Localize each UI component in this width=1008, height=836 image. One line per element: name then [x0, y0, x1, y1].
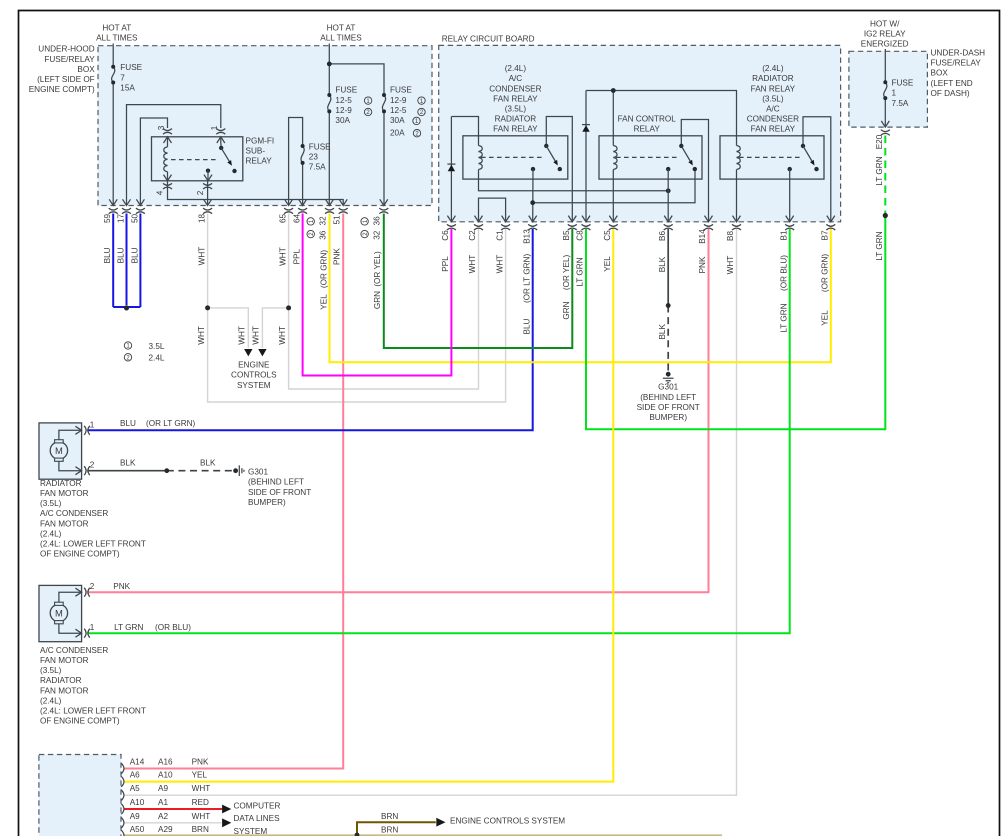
- wire BLU pins 59/17/50 bus: [112, 214, 114, 308]
- diode D2 to C8: [585, 91, 587, 222]
- svg-text:ENGINE CONTROLS SYSTEM: ENGINE CONTROLS SYSTEM: [450, 817, 565, 826]
- svg-text:PNK: PNK: [113, 582, 130, 591]
- pin A6/A10 YEL: [121, 776, 124, 786]
- run C8 feed to coils K2/K3: [586, 91, 737, 136]
- svg-text:WHT: WHT: [192, 784, 211, 793]
- relay circuit board: [439, 45, 841, 221]
- svg-text:E20: E20: [875, 134, 884, 149]
- svg-text:B7: B7: [821, 230, 830, 240]
- svg-text:B5: B5: [562, 230, 571, 240]
- svg-text:30A: 30A: [335, 116, 350, 125]
- svg-text:(2.4L): (2.4L): [40, 696, 62, 705]
- svg-text:FUSE: FUSE: [309, 143, 331, 152]
- svg-text:64: 64: [292, 214, 301, 224]
- svg-text:ENERGIZED: ENERGIZED: [861, 40, 909, 49]
- svg-text:2: 2: [196, 190, 205, 195]
- svg-text:A1: A1: [158, 798, 168, 807]
- run coil K1 to B6 wire: [479, 179, 669, 191]
- svg-text:A6: A6: [130, 771, 140, 780]
- svg-text:UNDER-HOOD: UNDER-HOOD: [38, 45, 94, 54]
- pin 32/36 YEL label: [307, 218, 314, 225]
- wire WHT branch to engine controls system (right): [262, 308, 288, 348]
- wire fuse 23 loop pins 65/64: [289, 118, 303, 206]
- svg-text:FAN MOTOR: FAN MOTOR: [40, 489, 89, 498]
- svg-text:M: M: [55, 445, 63, 456]
- svg-text:B14: B14: [698, 229, 707, 244]
- svg-text:(OR GRN): (OR GRN): [319, 250, 328, 288]
- wire GRN under-hood to B5: [384, 214, 573, 349]
- svg-text:YEL: YEL: [821, 310, 830, 326]
- svg-text:15A: 15A: [120, 84, 135, 93]
- svg-text:RADIATOR: RADIATOR: [495, 115, 537, 124]
- svg-text:IG2 RELAY: IG2 RELAY: [864, 30, 906, 39]
- svg-text:BLK: BLK: [200, 459, 216, 468]
- svg-text:BLK: BLK: [658, 256, 667, 272]
- svg-text:BUMPER): BUMPER): [248, 498, 286, 507]
- svg-text:12-9: 12-9: [335, 106, 352, 115]
- svg-text:WHT: WHT: [197, 326, 206, 345]
- svg-text:ENGINE: ENGINE: [238, 361, 270, 370]
- svg-text:RELAY CIRCUIT BOARD: RELAY CIRCUIT BOARD: [442, 34, 535, 43]
- svg-text:32: 32: [372, 230, 381, 240]
- svg-text:RADIATOR: RADIATOR: [40, 479, 82, 488]
- svg-text:12-9: 12-9: [390, 96, 407, 105]
- svg-text:LT GRN: LT GRN: [875, 231, 884, 260]
- svg-text:ALL TIMES: ALL TIMES: [320, 34, 362, 43]
- wire BLU B13 to motor1 pin 1: [87, 229, 533, 430]
- fuse 12-5/12-9 30A: [328, 95, 331, 111]
- svg-text:BRN: BRN: [381, 812, 398, 821]
- svg-text:BLU: BLU: [130, 247, 139, 263]
- pin A9/A2 WHT: [121, 818, 124, 828]
- svg-text:FAN CONTROL: FAN CONTROL: [618, 115, 677, 124]
- relay K2 switch: [681, 120, 708, 222]
- svg-text:RELAY: RELAY: [246, 157, 273, 166]
- relay K3 common to B1: [788, 167, 792, 171]
- pin 36/32 GRN label: [361, 218, 368, 225]
- svg-text:51: 51: [333, 215, 342, 225]
- under-hood fuse/relay box: [98, 46, 432, 206]
- wire BRN branch to engine controls system: [357, 822, 436, 835]
- svg-text:4: 4: [156, 190, 165, 195]
- relay K2 coil to C5: [612, 179, 614, 222]
- ground G301 (behind left side of front bumper): [233, 468, 238, 473]
- relay K3 (2.4L radiator fan relay / 3.5L A/C condenser fan relay): [720, 136, 824, 179]
- svg-text:BOX: BOX: [931, 69, 949, 78]
- wire pin 50 to PGM-FI relay pin 3: [140, 118, 167, 206]
- svg-text:C1: C1: [495, 230, 504, 241]
- svg-text:LT GRN: LT GRN: [779, 303, 788, 332]
- svg-text:FAN RELAY: FAN RELAY: [751, 125, 796, 134]
- svg-text:(3.5L): (3.5L): [505, 105, 527, 114]
- svg-text:(OR YEL): (OR YEL): [562, 254, 571, 290]
- relay K3 switch: [803, 117, 831, 222]
- wire YEL under-hood to B7: [330, 214, 831, 363]
- svg-text:B1: B1: [779, 230, 788, 240]
- svg-text:3: 3: [157, 125, 166, 130]
- svg-text:HOT AT: HOT AT: [327, 24, 356, 33]
- wire LT GRN E20 dashed: [884, 136, 886, 215]
- svg-text:SYSTEM: SYSTEM: [237, 381, 271, 390]
- relay K3 coil to B8: [736, 179, 738, 222]
- svg-text:CONTROLS: CONTROLS: [231, 371, 277, 380]
- svg-text:UNDER-DASH: UNDER-DASH: [931, 49, 986, 58]
- wire LT GRN B1 to motor2 pin 1: [87, 229, 790, 633]
- svg-text:C8: C8: [576, 230, 585, 241]
- svg-text:A/C CONDENSER: A/C CONDENSER: [40, 509, 108, 518]
- svg-text:(2.4L: LOWER LEFT FRONT: (2.4L: LOWER LEFT FRONT: [40, 707, 146, 716]
- svg-text:(OR LT GRN): (OR LT GRN): [522, 253, 531, 303]
- svg-text:HOT W/: HOT W/: [870, 20, 900, 29]
- svg-text:WHT: WHT: [726, 256, 735, 275]
- svg-text:(2.4L): (2.4L): [505, 64, 527, 73]
- svg-text:DATA LINES: DATA LINES: [234, 814, 281, 823]
- pin A50/A29 BRN: [121, 830, 124, 836]
- svg-text:(BEHIND LEFT: (BEHIND LEFT: [640, 393, 696, 402]
- svg-text:A/C: A/C: [509, 74, 523, 83]
- wire PNK B14 to motor2 pin 2: [87, 229, 708, 592]
- svg-text:RADIATOR: RADIATOR: [752, 74, 794, 83]
- svg-text:OF DASH): OF DASH): [931, 89, 970, 98]
- under-dash fuse/relay box: [849, 51, 928, 127]
- svg-text:FUSE: FUSE: [120, 63, 142, 72]
- svg-text:B8: B8: [726, 231, 735, 241]
- svg-text:7.5A: 7.5A: [892, 99, 909, 108]
- wire HOT AT ALL TIMES feed 1: [112, 44, 114, 206]
- arrow to engine controls system: [436, 818, 445, 827]
- svg-text:BLU: BLU: [120, 419, 136, 428]
- svg-text:20A: 20A: [390, 128, 405, 137]
- svg-text:OF ENGINE COMPT): OF ENGINE COMPT): [40, 550, 120, 559]
- pin A14/A16 PNK: [121, 763, 124, 773]
- pin A10/A1 RED: [121, 804, 124, 814]
- svg-text:(3.5L): (3.5L): [762, 94, 784, 103]
- svg-text:(OR BLU): (OR BLU): [779, 255, 788, 291]
- svg-text:12-5: 12-5: [390, 106, 407, 115]
- svg-text:(LEFT END: (LEFT END: [931, 79, 973, 88]
- svg-text:A10: A10: [158, 771, 173, 780]
- PGM-FI relay coil: [167, 137, 169, 181]
- svg-text:RED: RED: [192, 798, 209, 807]
- svg-text:WHT: WHT: [278, 326, 287, 345]
- svg-text:B6: B6: [658, 231, 667, 241]
- svg-text:65: 65: [278, 214, 287, 224]
- svg-text:32: 32: [318, 216, 327, 226]
- svg-text:A50: A50: [130, 825, 145, 834]
- svg-text:A14: A14: [130, 758, 145, 767]
- svg-text:WHT: WHT: [238, 326, 247, 345]
- svg-text:SIDE OF FRONT: SIDE OF FRONT: [248, 488, 311, 497]
- svg-text:WHT: WHT: [252, 326, 261, 345]
- motor M2 A/C condenser fan motor: [39, 585, 82, 641]
- svg-text:GRN: GRN: [562, 301, 571, 319]
- arrow to computer data lines system: [222, 805, 231, 814]
- svg-text:23: 23: [309, 153, 319, 162]
- fuse 1 7.5A: [884, 82, 887, 98]
- svg-text:PGM-FI: PGM-FI: [246, 137, 275, 146]
- svg-text:BLU: BLU: [103, 247, 112, 263]
- svg-text:PNK: PNK: [333, 248, 342, 265]
- svg-text:36: 36: [318, 230, 327, 240]
- svg-text:59: 59: [103, 214, 112, 224]
- svg-text:BLK: BLK: [120, 459, 136, 468]
- wire BRN connector row A50/A29: [125, 834, 723, 836]
- svg-text:36: 36: [372, 216, 381, 226]
- motor M1 radiator fan motor: [39, 423, 82, 479]
- svg-text:ALL TIMES: ALL TIMES: [96, 34, 138, 43]
- svg-text:FUSE: FUSE: [892, 79, 914, 88]
- svg-text:BLK: BLK: [658, 324, 667, 340]
- svg-text:(LEFT SIDE OF: (LEFT SIDE OF: [37, 75, 95, 84]
- svg-text:2: 2: [90, 582, 95, 591]
- svg-text:COMPUTER: COMPUTER: [234, 802, 281, 811]
- svg-text:OF ENGINE COMPT): OF ENGINE COMPT): [40, 717, 120, 726]
- svg-text:30A: 30A: [390, 116, 405, 125]
- svg-text:A10: A10: [130, 798, 145, 807]
- svg-text:1: 1: [90, 623, 95, 632]
- relay K1 (2.4L A/C condenser fan relay / 3.5L radiator fan relay): [463, 136, 568, 179]
- wire HOT AT ALL TIMES feed 2: [328, 44, 330, 206]
- wire WHT pin 18 to C1: [208, 214, 506, 403]
- op PGM-FI sub-relay U1: [152, 137, 243, 181]
- svg-text:12-5: 12-5: [335, 96, 352, 105]
- svg-text:PNK: PNK: [192, 758, 209, 767]
- relay K3 coil: [736, 136, 738, 179]
- svg-text:50: 50: [130, 214, 139, 224]
- svg-text:LT GRN: LT GRN: [114, 623, 143, 632]
- svg-text:17: 17: [117, 214, 126, 224]
- svg-text:FAN MOTOR: FAN MOTOR: [40, 519, 89, 528]
- svg-text:YEL: YEL: [319, 294, 328, 310]
- relay K2 common to B6: [666, 167, 670, 171]
- svg-text:PNK: PNK: [698, 256, 707, 273]
- wire HOT W/ IG2 relay feed: [884, 49, 886, 127]
- fuse 23 7.5A: [301, 146, 304, 163]
- svg-text:YEL: YEL: [192, 771, 208, 780]
- wire WHT connector row A9/A2: [125, 822, 222, 824]
- svg-text:A/C: A/C: [766, 105, 780, 114]
- svg-text:A5: A5: [130, 784, 140, 793]
- svg-text:PPL: PPL: [292, 248, 301, 264]
- relay K1 coil: [478, 136, 480, 179]
- svg-text:7: 7: [120, 73, 125, 82]
- svg-text:SUB-: SUB-: [246, 147, 266, 156]
- svg-text:PPL: PPL: [441, 256, 450, 272]
- svg-text:M: M: [55, 607, 63, 618]
- wire PPL pin 64 to C6: [303, 214, 452, 376]
- svg-text:G301: G301: [248, 468, 268, 477]
- svg-text:WHT: WHT: [197, 247, 206, 266]
- PGM-FI relay pin connectors: [163, 132, 172, 134]
- svg-text:HOT AT: HOT AT: [102, 24, 131, 33]
- svg-text:WHT: WHT: [278, 247, 287, 266]
- wire LT GRN C8 to E20: [586, 218, 885, 429]
- run B13 to relay K2 contact: [533, 169, 695, 202]
- svg-text:C2: C2: [468, 230, 477, 241]
- wire BLK B6 to ground G301: [667, 229, 669, 306]
- arrows to engine controls system: [244, 349, 252, 356]
- svg-text:A9: A9: [130, 812, 140, 821]
- wire WHT B8 to connector row A5/A9: [125, 229, 737, 795]
- relay K2 coil: [612, 136, 614, 179]
- wire WHT branch to engine controls system (left): [208, 308, 249, 348]
- junction on WHT 18 wire: [205, 305, 210, 310]
- wire pin 17 to PGM-FI relay pin 1: [127, 105, 221, 206]
- svg-text:A16: A16: [158, 758, 173, 767]
- svg-text:FUSE: FUSE: [390, 85, 412, 94]
- wire branch to fuse 12-9: [329, 64, 384, 206]
- legend 3.5L / 2.4L: [124, 342, 131, 349]
- svg-text:FUSE/RELAY: FUSE/RELAY: [931, 59, 982, 68]
- svg-text:SIDE OF FRONT: SIDE OF FRONT: [637, 403, 700, 412]
- svg-text:BLU: BLU: [522, 318, 531, 334]
- svg-text:(2.4L: LOWER LEFT FRONT: (2.4L: LOWER LEFT FRONT: [40, 540, 146, 549]
- svg-text:2.4L: 2.4L: [149, 354, 165, 363]
- fuse 12-9/12-5 30A/20A: [382, 95, 385, 111]
- svg-text:ENGINE COMPT): ENGINE COMPT): [29, 85, 95, 94]
- wire BLK motor1 pin2 to ground G301: [87, 470, 167, 472]
- junction on WHT 65 wire: [286, 305, 291, 310]
- svg-text:18: 18: [197, 214, 206, 224]
- wire PGM-FI relay pin 4 to pin 51: [168, 181, 344, 206]
- fuse 7 15A: [112, 67, 115, 83]
- svg-text:C6: C6: [441, 230, 450, 241]
- svg-text:YEL: YEL: [603, 256, 612, 272]
- svg-text:WHT: WHT: [192, 812, 211, 821]
- svg-text:C5: C5: [603, 230, 612, 241]
- ground G301 (behind left side of front bumper): [666, 372, 671, 377]
- under-hood box pin exits: [109, 199, 117, 205]
- svg-text:7.5A: 7.5A: [309, 163, 326, 172]
- relay K1 switch: [546, 117, 572, 222]
- svg-text:WHT: WHT: [495, 255, 504, 274]
- svg-text:LT GRN: LT GRN: [875, 156, 884, 185]
- pin A5/A9 WHT: [121, 790, 124, 800]
- svg-text:A/C CONDENSER: A/C CONDENSER: [40, 646, 108, 655]
- wire PGM-FI relay pin 2 to pin 18: [207, 181, 209, 206]
- svg-text:(OR GRN): (OR GRN): [821, 254, 830, 292]
- svg-text:(OR YEL): (OR YEL): [373, 251, 382, 287]
- relay K1 common to B13: [531, 167, 535, 171]
- svg-text:(BEHIND LEFT: (BEHIND LEFT: [248, 478, 304, 487]
- svg-text:SYSTEM: SYSTEM: [234, 827, 268, 836]
- svg-text:BLU: BLU: [117, 247, 126, 263]
- svg-text:(OR LT GRN): (OR LT GRN): [146, 419, 196, 428]
- svg-text:RADIATOR: RADIATOR: [40, 676, 82, 685]
- wire RED connector row A10/A1 to computer data lines: [125, 808, 223, 810]
- svg-text:3.5L: 3.5L: [149, 342, 165, 351]
- svg-text:(OR BLU): (OR BLU): [155, 623, 191, 632]
- svg-text:G301: G301: [658, 383, 678, 392]
- PGM-FI relay switch: [220, 137, 222, 148]
- svg-text:(2.4L): (2.4L): [40, 529, 62, 538]
- pin E20 exit: [881, 121, 889, 127]
- svg-text:1: 1: [90, 420, 95, 429]
- svg-text:A2: A2: [158, 812, 168, 821]
- svg-text:1: 1: [210, 125, 219, 130]
- svg-text:(3.5L): (3.5L): [40, 499, 62, 508]
- svg-text:A9: A9: [158, 784, 168, 793]
- wire WHT pin 65 to C2: [289, 214, 479, 390]
- svg-text:CONDENSER: CONDENSER: [747, 115, 799, 124]
- svg-text:BRN: BRN: [192, 825, 209, 834]
- svg-text:A29: A29: [158, 825, 173, 834]
- svg-text:B13: B13: [522, 229, 531, 244]
- bottom connector box: [39, 755, 121, 836]
- svg-text:2: 2: [90, 461, 95, 470]
- svg-text:CONDENSER: CONDENSER: [489, 84, 541, 93]
- relay K2 fan control relay: [599, 136, 702, 179]
- svg-text:FAN RELAY: FAN RELAY: [493, 94, 538, 103]
- wire YEL C5 to connector row A6/A10: [125, 229, 614, 782]
- relay board pin exits: [447, 216, 455, 222]
- svg-text:FUSE/RELAY: FUSE/RELAY: [44, 55, 95, 64]
- wire relay1 coil feed: [451, 117, 478, 137]
- svg-text:RELAY: RELAY: [634, 125, 661, 134]
- svg-text:WHT: WHT: [468, 255, 477, 274]
- svg-text:(2.4L): (2.4L): [762, 64, 784, 73]
- svg-text:GRN: GRN: [373, 291, 382, 309]
- wire C2-C1 tie: [479, 198, 506, 222]
- wire PNK pin 51 to connector row A14/A16: [125, 214, 344, 769]
- svg-text:FAN MOTOR: FAN MOTOR: [40, 656, 89, 665]
- PGM-FI relay common pin: [206, 169, 210, 173]
- svg-text:FAN RELAY: FAN RELAY: [751, 84, 796, 93]
- svg-text:BRN: BRN: [381, 825, 398, 834]
- svg-text:(3.5L): (3.5L): [40, 666, 62, 675]
- svg-text:LT GRN: LT GRN: [576, 257, 585, 286]
- svg-text:FAN MOTOR: FAN MOTOR: [40, 686, 89, 695]
- svg-text:BUMPER): BUMPER): [649, 413, 687, 422]
- diode D1 to C6: [450, 117, 452, 222]
- svg-text:1: 1: [892, 89, 897, 98]
- svg-text:BOX: BOX: [77, 65, 95, 74]
- svg-text:FAN RELAY: FAN RELAY: [493, 125, 538, 134]
- svg-text:FUSE: FUSE: [335, 85, 357, 94]
